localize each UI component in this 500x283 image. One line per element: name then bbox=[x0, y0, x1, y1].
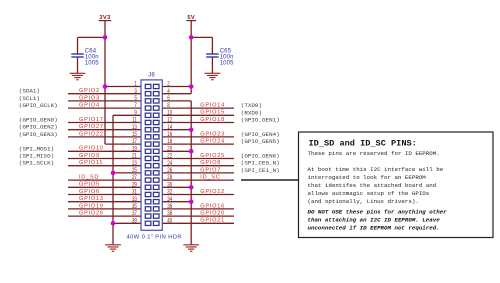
svg-text:23: 23 bbox=[132, 160, 137, 167]
ground (C65) bbox=[205, 73, 221, 79]
wire pin 26 bbox=[162, 172, 234, 174]
svg-text:J8: J8 bbox=[148, 72, 155, 78]
svg-text:(GPIO_GEN1): (GPIO_GEN1) bbox=[241, 117, 280, 124]
svg-text:GPIO27: GPIO27 bbox=[79, 124, 104, 130]
wire pin 15 bbox=[68, 136, 141, 138]
svg-text:(SCL1): (SCL1) bbox=[19, 95, 40, 102]
svg-text:(GPIO_GEN5): (GPIO_GEN5) bbox=[241, 138, 280, 145]
svg-text:At boot time this I2C interfac: At boot time this I2C interface will be bbox=[308, 166, 444, 173]
wire pin 25 bbox=[113, 172, 141, 174]
svg-text:(SPI_MISO): (SPI_MISO) bbox=[19, 153, 54, 160]
svg-text:GPIO26: GPIO26 bbox=[79, 211, 104, 217]
svg-text:(and optionally, Linux drivers: (and optionally, Linux drivers). bbox=[308, 198, 419, 205]
svg-text:31: 31 bbox=[132, 189, 137, 196]
svg-text:GPIO8: GPIO8 bbox=[200, 160, 221, 166]
svg-text:GPIO12: GPIO12 bbox=[200, 189, 225, 195]
svg-text:18: 18 bbox=[167, 139, 172, 146]
svg-text:GPIO22: GPIO22 bbox=[79, 131, 104, 137]
ground (C64) bbox=[70, 73, 86, 79]
svg-text:36: 36 bbox=[167, 203, 172, 210]
svg-text:5: 5 bbox=[134, 95, 136, 102]
svg-text:15: 15 bbox=[132, 131, 137, 138]
svg-text:25: 25 bbox=[132, 167, 137, 174]
svg-text:(SPI_MOSI): (SPI_MOSI) bbox=[19, 145, 54, 152]
wire pin 9 bbox=[113, 114, 141, 116]
svg-text:10: 10 bbox=[167, 110, 172, 117]
wire pin 34 bbox=[162, 201, 191, 203]
svg-text:GPIO23: GPIO23 bbox=[200, 131, 225, 137]
svg-text:35: 35 bbox=[132, 203, 137, 210]
svg-text:than attaching an I2C ID EEPRO: than attaching an I2C ID EEPROM. Leave bbox=[308, 217, 441, 224]
wire pin 6 bbox=[162, 100, 191, 102]
wire pin 16 bbox=[162, 136, 234, 138]
svg-text:GPIO3: GPIO3 bbox=[79, 95, 100, 101]
svg-text:(RXD0): (RXD0) bbox=[241, 109, 262, 116]
wire pin 8 bbox=[162, 107, 234, 109]
svg-text:4: 4 bbox=[167, 88, 169, 95]
pin numbers (right, even) bbox=[167, 81, 172, 225]
svg-text:GPIO9: GPIO9 bbox=[79, 153, 100, 159]
svg-text:7: 7 bbox=[134, 103, 136, 110]
note box leader line bbox=[241, 179, 299, 181]
svg-text:ID_SD and ID_SC PINS:: ID_SD and ID_SC PINS: bbox=[309, 139, 417, 149]
wire pin 3 bbox=[68, 93, 141, 95]
svg-text:(GPIO_GEN4): (GPIO_GEN4) bbox=[241, 131, 280, 138]
wire pin 38 bbox=[162, 215, 234, 217]
svg-text:GPIO24: GPIO24 bbox=[200, 139, 225, 145]
svg-text:GPIO13: GPIO13 bbox=[79, 196, 104, 202]
note box warning paragraph bbox=[308, 209, 448, 232]
svg-text:17: 17 bbox=[132, 139, 137, 146]
svg-text:(GPIO_GCLK): (GPIO_GCLK) bbox=[19, 102, 58, 109]
svg-text:32: 32 bbox=[167, 189, 172, 196]
svg-text:40: 40 bbox=[167, 218, 172, 225]
wire pin 32 bbox=[162, 194, 234, 196]
svg-text:1: 1 bbox=[134, 81, 136, 88]
wire GND vertical left (pins 9,25,39) bbox=[112, 115, 114, 245]
wire pin 35 bbox=[68, 208, 141, 210]
capacitor C65 100n bbox=[206, 37, 218, 73]
svg-text:GPIO25: GPIO25 bbox=[200, 153, 225, 159]
svg-text:GPIO15: GPIO15 bbox=[200, 110, 225, 116]
wire pin 22 bbox=[162, 158, 234, 160]
junction pin14/GND bbox=[189, 127, 194, 132]
wire pin 14 bbox=[162, 129, 191, 131]
power rail 3V3 symbol bbox=[99, 15, 111, 21]
svg-text:GPIO20: GPIO20 bbox=[200, 211, 225, 217]
wire pin 4 bbox=[162, 93, 191, 95]
svg-text:ID_SC: ID_SC bbox=[200, 175, 220, 181]
svg-text:24: 24 bbox=[167, 160, 172, 167]
wire pin 10 bbox=[162, 114, 234, 116]
wire pin 11 bbox=[68, 122, 141, 124]
svg-text:28: 28 bbox=[167, 175, 172, 182]
connector J8 40W 0.1" PIN HDR bbox=[141, 80, 162, 230]
junction pin2/5V bbox=[189, 84, 194, 89]
svg-text:1005: 1005 bbox=[220, 60, 234, 66]
svg-text:(SDA1): (SDA1) bbox=[19, 88, 40, 95]
svg-text:3: 3 bbox=[134, 88, 136, 95]
svg-text:GPIO16: GPIO16 bbox=[200, 203, 225, 209]
junction pin20/GND bbox=[189, 149, 194, 154]
junction 3V3/C64 bbox=[103, 35, 108, 40]
svg-text:38: 38 bbox=[167, 211, 172, 218]
wire pin 40 bbox=[162, 222, 234, 224]
svg-text:interrogated to look for an EE: interrogated to look for an EEPROM bbox=[308, 174, 427, 181]
svg-text:22: 22 bbox=[167, 153, 172, 160]
junction pin34/GND bbox=[189, 199, 194, 204]
svg-text:(SPI_SCLK): (SPI_SCLK) bbox=[19, 160, 54, 167]
wire pin 5 bbox=[68, 100, 141, 102]
svg-text:(GPIO_GEN6): (GPIO_GEN6) bbox=[241, 153, 280, 160]
svg-text:6: 6 bbox=[167, 95, 169, 102]
svg-text:12: 12 bbox=[167, 117, 172, 124]
svg-text:27: 27 bbox=[132, 175, 137, 182]
wire 3V3 to C64 bbox=[78, 36, 106, 38]
junction pin1/3V3 bbox=[103, 84, 108, 89]
wire pin 29 bbox=[68, 186, 141, 188]
svg-text:(GPIO_GEN2): (GPIO_GEN2) bbox=[19, 124, 58, 131]
svg-text:GPIO4: GPIO4 bbox=[79, 103, 100, 109]
svg-text:GPIO18: GPIO18 bbox=[200, 117, 225, 123]
svg-text:GPIO14: GPIO14 bbox=[200, 103, 225, 109]
wire pin 27 bbox=[68, 179, 141, 181]
wire pin 37 bbox=[68, 215, 141, 217]
svg-text:GPIO7: GPIO7 bbox=[200, 167, 221, 173]
svg-text:26: 26 bbox=[167, 167, 172, 174]
note box ID_SD and ID_SC PINS bbox=[299, 132, 494, 238]
svg-text:14: 14 bbox=[167, 124, 172, 131]
svg-text:34: 34 bbox=[167, 196, 172, 203]
svg-text:that identifes the attached bo: that identifes the attached board and bbox=[308, 182, 437, 189]
wire 5V to C65 bbox=[191, 36, 212, 38]
wire pin 18 bbox=[162, 143, 234, 145]
svg-text:39: 39 bbox=[132, 218, 137, 225]
svg-text:unconnected if ID EEPROM not r: unconnected if ID EEPROM not required. bbox=[308, 225, 440, 232]
svg-text:8: 8 bbox=[167, 103, 169, 110]
capacitor C64 100n bbox=[71, 37, 83, 73]
wire 5V vertical (to pin 2 and pin 4) bbox=[190, 21, 192, 94]
junction 5V/C65 bbox=[189, 35, 194, 40]
wire pin 19 bbox=[68, 150, 141, 152]
wire pin 31 bbox=[68, 194, 141, 196]
svg-text:GPIO11: GPIO11 bbox=[79, 160, 103, 166]
wire pin 1 bbox=[105, 86, 141, 88]
svg-text:29: 29 bbox=[132, 182, 137, 189]
svg-text:13: 13 bbox=[132, 124, 137, 131]
wire pin 12 bbox=[162, 122, 234, 124]
wire pin 7 bbox=[68, 107, 141, 109]
junction pin30/GND bbox=[189, 185, 194, 190]
svg-text:33: 33 bbox=[132, 196, 137, 203]
C64 value labels bbox=[85, 48, 99, 66]
ground (right of J8) bbox=[183, 245, 199, 251]
wire pin 28 bbox=[162, 179, 234, 181]
svg-text:9: 9 bbox=[134, 110, 136, 117]
svg-text:(GPIO_GEN0): (GPIO_GEN0) bbox=[19, 117, 58, 124]
svg-text:GPIO5: GPIO5 bbox=[79, 182, 100, 188]
wire 3V3 vertical (to pin 1 and pin 17) bbox=[104, 21, 106, 145]
svg-text:20: 20 bbox=[167, 146, 172, 153]
note box paragraph 2 bbox=[308, 166, 444, 205]
wire pin 13 bbox=[68, 129, 141, 131]
svg-text:DO NOT USE these pins for anyt: DO NOT USE these pins for anything other bbox=[308, 209, 448, 216]
svg-text:ID_SD: ID_SD bbox=[79, 175, 99, 181]
svg-text:GPIO19: GPIO19 bbox=[79, 203, 104, 209]
svg-text:16: 16 bbox=[167, 131, 172, 138]
wire pin 23 bbox=[68, 165, 141, 167]
wire pin 30 bbox=[162, 186, 191, 188]
pin numbers (left, odd) bbox=[132, 81, 137, 225]
svg-text:GPIO10: GPIO10 bbox=[79, 146, 104, 152]
svg-text:40W 0.1" PIN HDR: 40W 0.1" PIN HDR bbox=[126, 235, 182, 241]
power rail 5V symbol bbox=[186, 15, 196, 21]
wire pin 39 bbox=[113, 222, 141, 224]
svg-text:GPIO6: GPIO6 bbox=[79, 189, 100, 195]
wire pin 2 bbox=[162, 86, 191, 88]
wire GND vertical right (pins 6,14,20,30,34) bbox=[190, 101, 192, 245]
wire pin 24 bbox=[162, 165, 234, 167]
svg-text:These pins are reserved for ID: These pins are reserved for ID EEPROM. bbox=[308, 150, 440, 157]
wire pin 20 bbox=[162, 150, 191, 152]
svg-text:GPIO2: GPIO2 bbox=[79, 88, 100, 94]
svg-text:19: 19 bbox=[132, 146, 137, 153]
svg-text:2: 2 bbox=[167, 81, 169, 88]
svg-text:21: 21 bbox=[132, 153, 137, 160]
junction pin39/GND bbox=[111, 221, 116, 226]
svg-text:37: 37 bbox=[132, 211, 137, 218]
svg-text:30: 30 bbox=[167, 182, 172, 189]
wire pin 33 bbox=[68, 201, 141, 203]
wire pin 36 bbox=[162, 208, 234, 210]
svg-text:(SPI_CE1_N): (SPI_CE1_N) bbox=[241, 167, 280, 174]
wire pin 21 bbox=[68, 158, 141, 160]
svg-text:(TXD0): (TXD0) bbox=[241, 102, 262, 109]
svg-text:1005: 1005 bbox=[85, 60, 99, 66]
svg-text:GPIO17: GPIO17 bbox=[79, 117, 104, 123]
svg-text:allows automagic setup of the: allows automagic setup of the GPIOs bbox=[308, 190, 430, 197]
svg-text:(SPI_CE0_N): (SPI_CE0_N) bbox=[241, 160, 280, 167]
svg-text:GPIO21: GPIO21 bbox=[200, 218, 225, 224]
svg-text:11: 11 bbox=[132, 117, 137, 124]
svg-text:(GPIO_GEN3): (GPIO_GEN3) bbox=[19, 131, 58, 138]
ground (left of J8) bbox=[105, 245, 121, 251]
junction pin25/GND bbox=[111, 171, 116, 176]
C65 value labels bbox=[220, 48, 234, 66]
wire pin 17 bbox=[105, 143, 141, 145]
